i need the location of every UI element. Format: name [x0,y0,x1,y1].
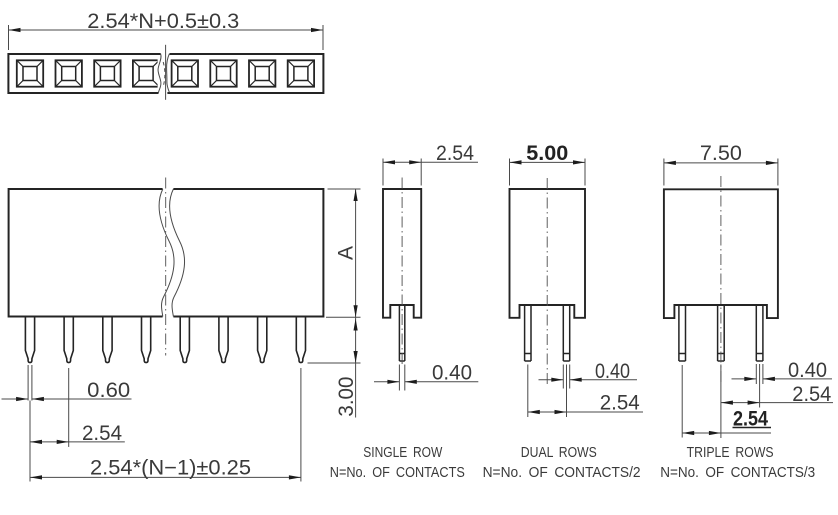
triple rows dimension 2.54 lower underline [733,427,772,429]
contact 3 [94,60,120,86]
top view body outline left part [8,54,160,93]
top view left extension line [8,25,10,50]
svg-text:2.54: 2.54 [600,392,640,415]
triple rows centerline [720,176,722,385]
svg-text:0.60: 0.60 [87,379,130,402]
svg-text:2.54: 2.54 [792,383,831,406]
svg-text:7.50: 7.50 [700,142,742,165]
svg-text:TRIPLE ROWS: TRIPLE ROWS [687,444,774,461]
single row dimension 0.40 line and arrows [374,380,478,384]
pin 8 (front) [296,317,305,363]
contact 5 [172,60,198,86]
dual rows pin left [525,305,531,361]
triple rows dimension 0.40 extension lines [756,364,763,384]
svg-text:2.54: 2.54 [436,142,474,165]
svg-text:0.40: 0.40 [788,359,827,382]
single row pin [399,305,404,361]
top view right extension line [322,25,324,50]
triple rows pin left [679,305,686,361]
svg-text:2.54: 2.54 [82,422,122,445]
top view break line right [167,54,170,93]
pin 2 (front) [64,317,73,363]
front view break S-curve left [159,189,174,317]
svg-text:N=No. OF CONTACTS/2: N=No. OF CONTACTS/2 [483,464,641,481]
contact 7 [249,60,275,86]
front view centerline [165,178,167,356]
dual rows centerline [546,178,548,385]
pin 6 (front) [219,317,228,363]
triple rows dimension 0.40 line and arrows [732,377,833,381]
triple rows dimension 2.54 lower line and arrows [682,431,771,435]
dual rows dimension 2.54 line and arrows [528,410,643,414]
top view break line left [158,54,161,94]
dual rows dimension 0.40 extension lines [563,365,569,389]
dual rows pin center extension lines [528,365,567,418]
pin8 center extension line [300,368,302,482]
single row dimension 2.54 extension lines [383,159,421,186]
triple rows body outline [664,189,778,318]
pin 5 (front) [180,317,189,363]
svg-text:2.54*(N−1)±0.25: 2.54*(N−1)±0.25 [90,457,251,480]
single row dimension 0.40 extension lines [399,365,404,391]
single row centerline [401,178,403,365]
svg-text:A: A [335,246,358,260]
svg-text:SINGLE ROW: SINGLE ROW [363,444,443,461]
dimension 2.54 pitch line and arrows [30,440,125,444]
dimension A top extension line [328,188,361,190]
svg-text:0.40: 0.40 [432,362,472,385]
contact 8 [288,60,314,86]
contact 2 [55,60,81,86]
svg-text:DUAL ROWS: DUAL ROWS [521,444,597,461]
svg-text:5.00: 5.00 [526,142,568,165]
top view dashed cut arc [163,62,165,87]
svg-text:3.00: 3.00 [335,377,358,417]
dimension A line and arrows [354,189,358,317]
pin1 center extension line [29,401,31,482]
single row dimension 2.54 line and arrows [383,160,478,164]
triple rows pin middle center extension line [720,365,722,439]
pin2 center extension line [68,368,70,447]
svg-text:N=No. OF CONTACTS/3: N=No. OF CONTACTS/3 [660,464,815,481]
contact 4 (clipped at break) [133,60,159,86]
pin 3 (front) [103,317,112,363]
dual rows dimension 5.00 extension lines [510,159,586,186]
triple rows dimension 7.50 extension lines [664,159,778,186]
top view dimension line [9,28,324,32]
single row body outline [383,189,421,318]
triple rows pin right center extension line [759,364,761,408]
svg-text:N=No. OF CONTACTS: N=No. OF CONTACTS [330,464,465,481]
top view body outline right part [167,54,323,93]
dual rows dimension 5.00 line and arrows [510,160,586,164]
dimension 0.60 extension lines [28,365,32,401]
top view break vertical line [165,45,167,100]
triple rows dimension 7.50 line and arrows [664,161,778,165]
dimension 3.00 line and arrows [354,317,358,417]
dual rows body outline [510,189,586,318]
triple rows dimension 2.54 upper line and arrows [721,401,833,405]
contact 6 [210,60,236,86]
pin 1 (front) [25,317,34,363]
dual rows pin right [563,305,569,361]
dimension 3.00 pin-tip extension line [308,362,361,364]
contact 1 [17,60,43,86]
dimension 2.54*(N-1)±0.25 line and arrows [30,475,301,479]
dimension 0.60 line and arrows [2,397,132,401]
triple rows pin right [756,305,763,361]
pin 7 (front) [258,317,267,363]
svg-text:0.40: 0.40 [595,360,630,383]
triple rows pin left center extension line [681,365,683,438]
pin 4 (front) [142,317,151,363]
front view break S-curve right [170,189,185,317]
triple rows pin middle [718,305,725,361]
dimension A bottom extension line [326,316,361,318]
dual rows dimension 0.40 line and arrows [539,378,638,382]
front view body outline [9,189,324,317]
